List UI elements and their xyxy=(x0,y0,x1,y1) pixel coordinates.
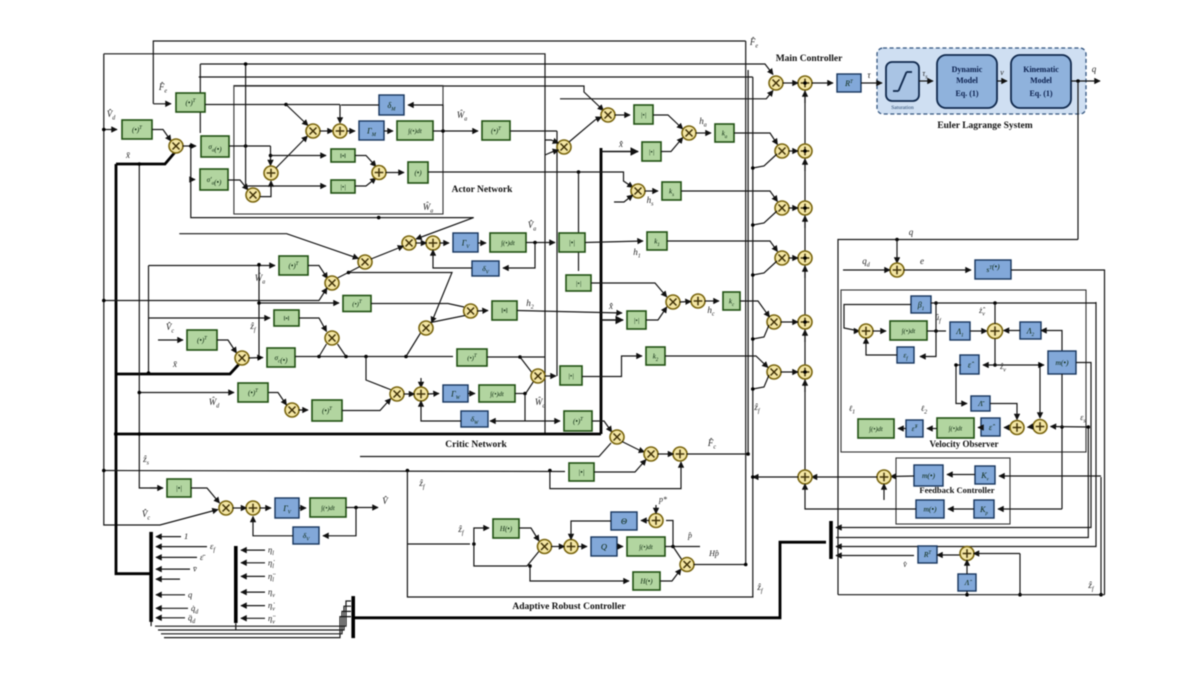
wire abs to S6 bottom xyxy=(355,178,376,186)
wire zf bottom line xyxy=(838,594,1105,596)
block R^T inv xyxy=(918,546,937,563)
wire column up into sum row 2 xyxy=(804,159,806,171)
wire down to abs box xyxy=(246,64,326,186)
node Vd on left vertical xyxy=(102,128,106,132)
multiplier main row 5 xyxy=(767,315,781,329)
node zv lambdabar xyxy=(954,363,958,367)
node sum column row 3 xyxy=(803,206,807,210)
wire Vd input xyxy=(104,129,117,131)
wire S25 to S26 xyxy=(658,453,674,455)
node zf ARC xyxy=(472,542,476,546)
multiplier S20 xyxy=(531,369,545,383)
block eps_hat1 xyxy=(960,355,979,374)
wire vertical to G19 top xyxy=(578,172,580,271)
multiplier S13 xyxy=(402,236,416,250)
node zf on sigma wire xyxy=(257,356,261,360)
wire m2 to S51 xyxy=(891,475,915,478)
wire column up into sum row 3 xyxy=(804,216,806,228)
block abs Wa xyxy=(331,180,355,193)
wire zf up to H xyxy=(474,528,489,544)
wire vC diag row 6 xyxy=(753,375,769,389)
block K_p xyxy=(974,500,994,518)
wire loop y77 xyxy=(199,76,753,78)
block delta_Va xyxy=(472,261,499,276)
wire G19 to S18 xyxy=(591,283,667,297)
wire vertical vA xyxy=(745,41,747,565)
node p hat xyxy=(671,545,675,549)
wire mux wrap line 3 xyxy=(161,611,351,633)
wire S19 to k_c xyxy=(705,300,720,302)
block Lambda1 xyxy=(950,322,970,340)
sum S50 xyxy=(798,470,812,484)
svg-text:v: v xyxy=(1000,68,1004,77)
node zf split xyxy=(548,469,552,473)
node on M1M2 diag xyxy=(347,271,351,275)
wire H2 to S32 xyxy=(660,569,681,581)
wire eps2 to int3 xyxy=(978,427,981,429)
node eps_s xyxy=(1087,425,1091,429)
multiplier S18 xyxy=(666,295,680,309)
wire S49 to S48 xyxy=(1028,426,1034,429)
svg-text:p*: p* xyxy=(658,495,667,504)
wire G11 input xyxy=(259,302,339,304)
svg-text:Actor Network: Actor Network xyxy=(452,185,513,195)
svg-text:∫(•)dt: ∫(•)dt xyxy=(500,240,515,247)
node x1020 xyxy=(1018,593,1022,597)
node x1101 bottom xyxy=(1099,593,1103,597)
wire loop y99 to S33 xyxy=(560,91,773,99)
wire S4 to S2 diagonal xyxy=(276,136,308,168)
wire zv to eps xyxy=(983,364,995,366)
wire bus2 input 6 xyxy=(241,617,265,619)
sum main row 2 xyxy=(798,144,812,158)
node x148 on xbar xyxy=(147,371,151,375)
wire zf bypass around abs xyxy=(550,462,681,489)
node Hp vA xyxy=(744,563,748,567)
wire kinematic out q xyxy=(1071,80,1100,82)
node Vc out xyxy=(354,506,358,510)
block norm h2 xyxy=(492,301,517,320)
Euler Lagrange System dashed container xyxy=(877,48,1086,114)
wire sigma_a out xyxy=(229,145,271,147)
wire Fe into (.)T xyxy=(153,103,171,105)
svg-text:Adaptive Robust Controller: Adaptive Robust Controller xyxy=(512,602,626,612)
block integrator obs2 xyxy=(858,419,894,438)
wire p up to S31 xyxy=(666,521,673,547)
block Gamma_Wc xyxy=(443,385,468,402)
svg-text:Euler Lagrange System: Euler Lagrange System xyxy=(937,121,1032,131)
wire main sum column xyxy=(804,83,806,470)
block delta_Wc xyxy=(461,411,488,427)
wire RT to saturation xyxy=(861,82,882,84)
block (.) actor xyxy=(408,162,428,183)
wire beta out loop xyxy=(844,305,911,332)
block sigma_a_prime xyxy=(200,169,228,190)
multiplier S15 xyxy=(235,351,249,365)
wire qd input xyxy=(843,269,890,271)
multiplier S9 ha xyxy=(682,126,696,140)
wire G22 up to k2 xyxy=(582,356,642,377)
sum S45 qd xyxy=(890,263,904,277)
wire thick mux output xyxy=(355,542,826,618)
wire int Wc out xyxy=(515,393,525,395)
wire G16 to S22 xyxy=(342,399,391,411)
wire p star in xyxy=(655,505,657,514)
svg-text:Dynamic: Dynamic xyxy=(952,65,983,74)
multiplier S29 xyxy=(538,540,552,554)
wire hline B to S17 xyxy=(349,273,453,323)
wire Lambda hat input xyxy=(966,591,968,595)
block integrator ARC xyxy=(627,537,665,556)
wire S45 to sT xyxy=(904,269,972,271)
svg-text:Model: Model xyxy=(956,76,979,85)
node y64 tee xyxy=(244,62,248,66)
wire S51 bottom stub xyxy=(883,484,885,500)
wire eps left to node xyxy=(956,364,961,366)
node left zf2 xyxy=(102,469,106,473)
wire G20 out xyxy=(517,311,622,314)
wire bar1 bottom stub xyxy=(150,622,152,626)
node left hlineA xyxy=(102,299,106,303)
svg-text:p̂: p̂ xyxy=(687,531,692,540)
Velocity Observer boundary box xyxy=(841,290,1086,452)
svg-text:Velocity Observer: Velocity Observer xyxy=(930,439,999,449)
wire norm zf out to S16 xyxy=(299,318,327,332)
multiplier M1 xyxy=(325,276,339,290)
svg-text:x̂: x̂ xyxy=(608,301,613,311)
wire Lambdabar to S48 xyxy=(990,404,1017,420)
node Wa tap xyxy=(377,216,381,220)
svg-text:Eq. (1): Eq. (1) xyxy=(1029,89,1052,98)
block abs G22 xyxy=(560,366,582,385)
svg-text:‖•‖: ‖•‖ xyxy=(284,315,290,322)
sum S28 xyxy=(246,501,260,515)
node actor W out xyxy=(441,129,445,133)
wire q feedback down xyxy=(1077,81,1079,240)
block sigma_a xyxy=(201,136,229,157)
block k_1 xyxy=(647,232,667,250)
wire thick xbar bus vertical xyxy=(116,164,151,574)
wire S20 to abs G22 xyxy=(545,375,557,377)
svg-text:m(•): m(•) xyxy=(1055,358,1069,367)
wire int Va out to abs xyxy=(526,242,555,244)
wire zdot line xyxy=(931,302,1097,304)
wire S50 out xyxy=(753,476,799,478)
wire M1 to M2 diag xyxy=(337,267,361,279)
block eps_f xyxy=(897,347,914,363)
block (.)T critic out xyxy=(564,411,592,431)
wire node down to sigma_a_prime xyxy=(191,146,195,180)
wire critic (.)T to S24 xyxy=(592,421,612,432)
Kinematic Model block xyxy=(1011,55,1071,108)
block abs Va xyxy=(559,233,585,252)
multiplier S27 xyxy=(219,501,233,515)
wire stair to M2 top xyxy=(179,234,358,259)
wire bus2 input 2 xyxy=(241,562,265,564)
multiplier S1 xbar xyxy=(169,139,183,153)
node sigma out 1 xyxy=(317,355,321,359)
wire x1101 down to bottom xyxy=(1100,477,1102,595)
sum S46 xyxy=(859,324,873,338)
wire S15 to sigma_c xyxy=(249,357,264,360)
svg-text:Kinematic: Kinematic xyxy=(1023,65,1059,74)
svg-text:∫(•)dt: ∫(•)dt xyxy=(320,505,335,512)
svg-text:∫(•)dt: ∫(•)dt xyxy=(638,544,653,551)
wire zf down to S29 xyxy=(474,544,539,566)
wire Gamma_Va to int xyxy=(478,242,486,244)
block beta xyxy=(911,296,931,313)
svg-text:|•|: |•| xyxy=(649,149,655,156)
wire bus1 input 1 xyxy=(156,536,181,538)
wire sigma node to S16 xyxy=(319,344,327,357)
wire vertical vB xyxy=(747,70,749,454)
svg-text:|•|: |•| xyxy=(576,280,582,287)
wire Rt chain to bus xyxy=(836,555,914,557)
wire abs ha out to S9 xyxy=(653,115,683,129)
wire mux wrap line 2 xyxy=(158,606,351,630)
multiplier main row 6 xyxy=(767,365,781,379)
wire Theta to S30 top xyxy=(571,521,611,540)
Dynamic Model block xyxy=(937,55,997,108)
multiplier S8 xyxy=(557,140,571,154)
block integrator Va xyxy=(490,233,526,252)
node A on sigma out xyxy=(244,144,248,148)
wire v545 to S8 xyxy=(545,140,559,143)
svg-text:|•|: |•| xyxy=(641,112,647,119)
wire xhat to S10b xyxy=(614,195,633,202)
wire sigma_prime out to S5 xyxy=(228,180,248,190)
wire mult to sum row 3 xyxy=(789,207,799,209)
svg-text:q: q xyxy=(909,227,914,237)
wire S17 up to M3 xyxy=(431,316,466,323)
svg-text:|•|: |•| xyxy=(569,239,575,247)
node vC row 5 xyxy=(751,337,755,341)
wire M3 to G20 xyxy=(477,310,488,313)
wire vertical v2 z_f right xyxy=(752,77,754,597)
svg-text:Model: Model xyxy=(1030,76,1053,85)
wire zdot into S47 xyxy=(994,303,996,324)
node zf on ARC edge xyxy=(406,469,410,473)
wire thick xbar to mult S1 xyxy=(116,151,176,164)
block (.)T Wd xyxy=(238,383,268,402)
wire S13 to S14 xyxy=(416,242,427,244)
block (.)T V_d xyxy=(122,120,152,139)
node Wc out xyxy=(523,392,527,396)
node q out xyxy=(1076,79,1080,83)
svg-text:x̄: x̄ xyxy=(172,359,178,369)
block k_s xyxy=(662,182,681,200)
wire column up into sum row 1 xyxy=(804,91,806,103)
state bus bar right xyxy=(829,521,833,559)
block K_v xyxy=(975,466,995,484)
sum S23 xyxy=(414,387,428,401)
block Theta xyxy=(611,512,637,530)
wire S9 to k_a xyxy=(696,132,712,134)
node G21 out xyxy=(518,355,522,359)
wire int Vc out xyxy=(346,507,378,509)
wire abs xhat2 to S18 xyxy=(646,307,667,320)
wire lower feed to S24 xyxy=(360,443,611,457)
node sum column row 1 xyxy=(803,81,807,85)
wire into S52 xyxy=(974,553,1021,555)
block norm zf xyxy=(274,310,299,326)
multiplier S24 xyxy=(610,430,624,444)
wire top feedback F_e line xyxy=(153,41,745,104)
node zf lower xyxy=(528,564,532,568)
wire k1 to row4 xyxy=(667,241,778,252)
svg-text:x̂: x̂ xyxy=(618,139,623,149)
wire abs xhat1 to S9 xyxy=(661,138,683,152)
multiplier main row 3 xyxy=(775,201,789,215)
block integrator Wc xyxy=(479,385,515,402)
wire S52 to RT xyxy=(937,554,961,556)
wire sT out right xyxy=(1011,270,1105,595)
wire thick xhat branch to norm2 xyxy=(601,319,623,321)
svg-text:Eq. (1): Eq. (1) xyxy=(955,89,978,98)
node S50 vC xyxy=(751,475,755,479)
block Q xyxy=(591,537,617,556)
sum main row 4 xyxy=(798,251,812,265)
mux bus bar 3 xyxy=(351,596,355,638)
wire vC diag row 2 xyxy=(753,154,777,168)
wire k_s to row3 xyxy=(681,191,778,202)
svg-text:v̄: v̄ xyxy=(193,564,197,574)
block sigma_c xyxy=(267,348,295,367)
wire S32 out xyxy=(694,564,746,566)
svg-text:Main Controller: Main Controller xyxy=(776,54,843,64)
wire zf vertical G11 feed xyxy=(258,265,260,358)
wire node B down xyxy=(270,146,272,166)
svg-text:Critic Network: Critic Network xyxy=(445,440,507,450)
wire m down to Kp xyxy=(1061,374,1063,509)
wire S16 down to sigma line xyxy=(338,344,347,357)
wire S26 Fc out to vB xyxy=(687,453,749,455)
wire G11 out to M3 xyxy=(371,304,464,308)
node zf G11 tee xyxy=(257,301,261,305)
wire Wc to G24 xyxy=(525,420,560,422)
block H2 xyxy=(633,572,660,590)
wire Vc input xyxy=(158,339,183,341)
node q branch xyxy=(895,238,899,242)
sum S6 norms xyxy=(372,166,386,180)
multiplier main row 4 xyxy=(775,251,789,265)
node zs xyxy=(138,432,142,436)
multiplier S7 xyxy=(601,108,615,122)
wire delta_Va feedback xyxy=(503,243,535,269)
node Fc vB xyxy=(746,452,750,456)
node Va out xyxy=(533,241,537,245)
sum main row 3 xyxy=(798,201,812,215)
wire G21 out to v545 xyxy=(520,356,545,358)
wire G34 to S27 xyxy=(191,488,220,503)
sum S47 big xyxy=(988,324,1003,339)
wire Kv to m2 xyxy=(947,474,975,476)
sum S3 actor xyxy=(333,124,347,138)
sum main row 5 xyxy=(798,315,812,329)
wire actor top wire y86 to S7 xyxy=(234,86,604,111)
block k_2 xyxy=(646,347,665,365)
wire mux wrap line 1 xyxy=(155,601,351,626)
svg-text:∫(•)dt: ∫(•)dt xyxy=(868,426,883,433)
block Gamma_Va xyxy=(453,233,478,252)
block delta_Vc xyxy=(293,527,319,544)
wire thick xhat branch to norm1 xyxy=(601,151,638,153)
wire S51 to S50 xyxy=(812,476,878,478)
wire vC diag row 4 xyxy=(753,261,777,275)
svg-text:∫(•)dt: ∫(•)dt xyxy=(489,391,504,398)
svg-text:q: q xyxy=(1092,64,1097,74)
wire m out down x1091 xyxy=(836,363,1091,528)
wire u_f up to beta line xyxy=(935,303,937,331)
wire S5 to S4 xyxy=(260,181,271,197)
multiplier M3 xyxy=(464,304,478,318)
wire mult to sum row 2 xyxy=(789,150,799,152)
wire Kp row xyxy=(998,508,1062,510)
wire eps_s down x1088 xyxy=(836,427,1088,538)
wire S31 to Theta xyxy=(641,520,650,522)
sum S48 xyxy=(1010,421,1024,435)
wire bus1 input 6 xyxy=(156,594,185,596)
wire delta_Va to S14 bottom xyxy=(433,250,472,268)
node zv xyxy=(993,363,997,367)
wire delta_Vc to S28 xyxy=(253,517,293,536)
block H1 xyxy=(493,519,519,538)
wire ARC left edge xyxy=(407,471,753,598)
node zf top xyxy=(257,263,261,267)
wire S10 to k_s xyxy=(645,190,659,192)
wire outer left loop y53 xyxy=(104,54,545,433)
wire bus2 input 4 xyxy=(241,591,265,593)
wire Wc to delta xyxy=(490,420,525,422)
multiplier M2 xyxy=(358,255,372,269)
svg-text:1: 1 xyxy=(184,531,188,541)
wire Kv row xyxy=(999,475,1101,477)
block m3 xyxy=(916,500,944,518)
block integrator obs1 xyxy=(890,321,927,340)
wire zf to H2 xyxy=(530,566,629,581)
block eps_hat2 xyxy=(981,418,1000,436)
wire left outer vertical Vd input xyxy=(104,54,218,525)
wire S23 to Gamma_Wc xyxy=(428,393,440,396)
wire k_2 to row6 xyxy=(665,356,768,368)
block m2 xyxy=(914,465,943,486)
wire S27 to S28 xyxy=(233,507,247,509)
node lambda input xyxy=(965,593,969,597)
wire q feedback horizontal xyxy=(838,240,1078,595)
mux bus bar 2 xyxy=(234,546,238,623)
sum S49 xyxy=(1033,420,1047,434)
multiplier main row 2 xyxy=(775,144,789,158)
sum S52 xyxy=(960,547,974,561)
wire Wd tee xyxy=(139,392,234,394)
wire saturation to dynamic model xyxy=(919,80,933,82)
node sum column row 2 xyxy=(803,149,807,153)
wire into S3 top xyxy=(339,105,341,124)
wire S49 top input xyxy=(1039,365,1041,418)
svg-text:|•|: |•| xyxy=(634,317,640,324)
multiplier S16 xyxy=(325,331,339,345)
wire mux wrap line 4 xyxy=(164,617,351,638)
wire bus1 input 4 xyxy=(156,568,190,570)
wire k_c to row5 xyxy=(740,301,770,317)
node beta line xyxy=(934,301,938,305)
node vC row 6 xyxy=(751,387,755,391)
sum S31 pstar xyxy=(649,514,663,528)
wire u_f down to eps_f xyxy=(920,331,936,357)
wire column up into sum row 4 xyxy=(804,266,806,278)
wire Wc node to S20 xyxy=(526,382,534,394)
wire hline A to M1 xyxy=(104,288,327,301)
